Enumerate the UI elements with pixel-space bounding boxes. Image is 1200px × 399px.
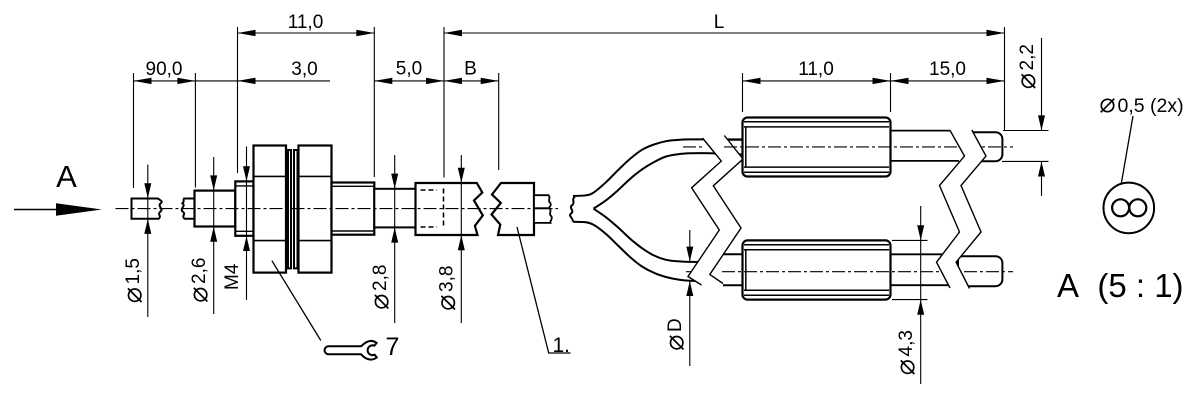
dimension 11,0 sleeve left arrow bbox=[743, 78, 761, 84]
hex nut 1 lower flat line bbox=[254, 240, 287, 242]
view arrow A head bbox=[56, 203, 102, 216]
back ferrule body bbox=[492, 183, 535, 235]
extension line x=374.3 bbox=[373, 27, 375, 177]
hidden line top bbox=[421, 189, 438, 191]
svg-text:2,8: 2,8 bbox=[370, 265, 391, 291]
dimension O2,6 bottom arrow bbox=[210, 227, 217, 242]
lower sleeve thread line 1 bbox=[744, 244, 889, 246]
dimension OD bottom arrow bbox=[686, 281, 693, 296]
fiber stub lower bbox=[534, 208, 552, 223]
dimension L left arrow bbox=[444, 30, 462, 36]
svg-text:15,0: 15,0 bbox=[929, 59, 966, 80]
extension line x=498.7 bbox=[498, 73, 500, 170]
collar sleeve bbox=[332, 183, 375, 235]
dimension 11,0 (sleeve) line bbox=[743, 80, 1005, 82]
left break band across branches bbox=[688, 133, 743, 289]
dimension 90,0 left arrow bbox=[134, 78, 152, 84]
dimension O4,3 label bbox=[896, 330, 917, 374]
dimension 11,0 (thread length) line bbox=[238, 32, 375, 34]
hex nut 1 upper flat line bbox=[254, 175, 287, 177]
dimension O3,8 label bbox=[437, 266, 458, 310]
collar sleeve inner top line bbox=[332, 185, 375, 187]
dimension O1,5 line bbox=[147, 165, 149, 318]
dimension 11,0 sleeve right arrow bbox=[873, 78, 891, 84]
fiber break stub (O1,5 continues) bbox=[182, 199, 195, 219]
svg-text:B: B bbox=[464, 59, 477, 80]
collar sleeve inner bottom line bbox=[332, 230, 375, 232]
fork upper inner edge bbox=[594, 153, 743, 209]
detail fiber core left bbox=[1112, 199, 1129, 216]
dimension OD line lower bbox=[689, 281, 691, 366]
svg-text:0,5 (2x): 0,5 (2x) bbox=[1118, 95, 1184, 117]
leader line for item 1 bbox=[517, 227, 571, 353]
dimension OD top arrow bbox=[686, 247, 693, 262]
dimension M4 line bbox=[246, 147, 248, 301]
dimension O3,8 bottom arrow bbox=[458, 235, 465, 250]
dimension O2,2 label bbox=[1017, 44, 1038, 88]
main centerline bbox=[116, 208, 559, 210]
upper sleeve centerline bbox=[724, 146, 1013, 148]
dimension O4,3 line bbox=[920, 206, 922, 384]
extension line x=195.4 bbox=[194, 73, 196, 188]
O4,3 extension bottom bbox=[892, 299, 928, 301]
dimension O2,2 line upper bbox=[1041, 38, 1043, 131]
svg-text:11,0: 11,0 bbox=[288, 12, 324, 33]
washer 2 bbox=[294, 150, 298, 268]
dimension M4 bottom arrow bbox=[243, 236, 250, 251]
dimension O2,8 line bbox=[394, 155, 396, 323]
dimension 90,0 right arrow bbox=[177, 78, 195, 84]
svg-text:A (5 : 1): A (5 : 1) bbox=[1057, 267, 1184, 304]
lower sleeve centerline left stub bbox=[686, 271, 700, 273]
dimension O1,5 bottom arrow bbox=[144, 219, 151, 234]
dimension 11,0 right arrow bbox=[356, 30, 374, 36]
lower sleeve thread line 3 bbox=[744, 289, 889, 291]
dimension 5,0 right arrow bbox=[426, 78, 444, 84]
dimension L line bbox=[444, 32, 1005, 34]
detail leader line bbox=[1118, 116, 1134, 206]
lower tube top edge bbox=[891, 253, 944, 255]
lower tube bottom edge bbox=[891, 284, 951, 286]
svg-text:A: A bbox=[56, 159, 77, 194]
svg-text:1.: 1. bbox=[553, 334, 571, 357]
thread section M4 bbox=[235, 181, 253, 235]
svg-text:90,0: 90,0 bbox=[146, 59, 183, 80]
dimension O2,2 line lower bbox=[1041, 161, 1043, 196]
svg-text:3,8: 3,8 bbox=[437, 266, 458, 292]
hex nut 2 upper flat line bbox=[299, 175, 332, 177]
washer 1 bbox=[288, 150, 291, 268]
upper sleeve M4 body bbox=[743, 118, 891, 177]
fiber tip body (O1,5) bbox=[132, 199, 162, 219]
dimension OD line upper bbox=[689, 230, 691, 262]
hex nut 2 lower flat line bbox=[299, 240, 332, 242]
svg-text:1,5: 1,5 bbox=[123, 258, 144, 284]
hex nut 1 bbox=[254, 146, 287, 273]
wrench icon bbox=[325, 341, 377, 360]
cable start break edge bbox=[570, 197, 575, 222]
svg-text:11,0: 11,0 bbox=[798, 59, 834, 80]
sleeve O3,8 body bbox=[416, 183, 483, 235]
ferrule body O2,6 bbox=[195, 191, 236, 227]
wrench leader line bbox=[272, 261, 321, 341]
O2,2 extension bottom bbox=[1002, 160, 1049, 162]
svg-text:4,3: 4,3 bbox=[896, 330, 917, 356]
extension line x=133.5 bbox=[133, 73, 135, 188]
dimension O4,3 top arrow bbox=[917, 225, 924, 240]
dimension O2,8 bottom arrow bbox=[391, 228, 398, 243]
lower branch stub bottom bbox=[718, 284, 743, 286]
detail fiber core right bbox=[1129, 199, 1146, 216]
lower tip cap bbox=[958, 256, 1002, 286]
detail label O0,5 (2x) bbox=[1101, 95, 1184, 117]
dimension O2,8 label bbox=[370, 265, 391, 309]
upper tube bottom edge bbox=[891, 160, 960, 162]
svg-text:D: D bbox=[665, 318, 686, 332]
dimension O1,5 top arrow bbox=[144, 183, 151, 198]
dimension 3,0 arrow bbox=[238, 78, 256, 84]
upper sleeve thread line 1 bbox=[744, 121, 889, 123]
lower sleeve M4 body bbox=[743, 240, 891, 299]
upper sleeve thread line 4 bbox=[744, 171, 889, 173]
fork lower inner edge bbox=[594, 209, 716, 263]
dimension 90,0 / 3,0 line bbox=[134, 80, 331, 82]
fiber stub upper bbox=[534, 195, 551, 208]
dimension O2,6 top arrow bbox=[210, 175, 217, 190]
dimension OD label bbox=[665, 318, 686, 349]
dimension O2,2 top arrow bbox=[1038, 115, 1045, 130]
thread section M4 relief bottom bbox=[235, 230, 253, 232]
svg-text:7: 7 bbox=[386, 333, 400, 361]
dimension 5,0 left arrow bbox=[374, 78, 392, 84]
dimension O3,8 line bbox=[460, 155, 462, 323]
svg-text:M4: M4 bbox=[222, 263, 243, 290]
lower sleeve thread line 2 bbox=[744, 249, 889, 251]
hidden line bottom bbox=[421, 226, 438, 228]
O2,2 extension top bbox=[1003, 130, 1049, 132]
lower sleeve centerline bbox=[722, 271, 1013, 273]
upper sleeve end face line bbox=[745, 127, 747, 166]
dimension M4 top arrow bbox=[243, 166, 250, 181]
dimension 11,0 left arrow bbox=[238, 30, 256, 36]
thread section M4 relief top bbox=[235, 185, 253, 187]
dimension O4,3 bottom arrow bbox=[917, 300, 924, 315]
dimension B right arrow bbox=[481, 78, 499, 84]
extension line x=237.5 bbox=[237, 27, 239, 173]
hex nut 2 bbox=[299, 146, 332, 273]
O4,3 extension top bbox=[892, 239, 928, 241]
upper branch stub top bbox=[722, 139, 743, 141]
upper tip cap bbox=[966, 132, 1002, 161]
view arrow A shaft bbox=[14, 209, 60, 211]
fork upper outer edge bbox=[573, 139, 743, 196]
lower sleeve thread line 4 bbox=[744, 294, 889, 296]
extension line x=444 bbox=[443, 27, 445, 178]
dimension 15,0 right arrow bbox=[987, 78, 1005, 84]
extension line x=890.5 bbox=[890, 73, 892, 112]
extension line x=1004.5 bbox=[1004, 27, 1006, 130]
dimension 15,0 left arrow bbox=[891, 78, 909, 84]
detail cable outline circle bbox=[1104, 183, 1155, 234]
dimension M4 label bbox=[222, 263, 243, 290]
upper sleeve centerline left stub bbox=[683, 146, 704, 148]
svg-text:3,0: 3,0 bbox=[291, 59, 317, 80]
dimension B left arrow bbox=[444, 78, 462, 84]
upper sleeve thread line 2 bbox=[744, 126, 889, 128]
dimension O1,5 label bbox=[123, 258, 144, 302]
lower branch stub top bbox=[720, 253, 743, 255]
neck O2,8 bbox=[374, 189, 415, 228]
svg-text:L: L bbox=[714, 12, 725, 33]
svg-text:2,6: 2,6 bbox=[189, 258, 210, 284]
upper tube top edge bbox=[891, 130, 951, 132]
svg-text:2,2: 2,2 bbox=[1017, 44, 1038, 70]
dimension O2,6 line bbox=[213, 157, 215, 314]
dimension O2,6 label bbox=[189, 258, 210, 302]
dimension L right arrow bbox=[987, 30, 1005, 36]
dimension 5,0 / B line bbox=[374, 80, 498, 82]
dimension O2,2 bottom arrow bbox=[1038, 162, 1045, 177]
extension line x=742.5 bbox=[742, 73, 744, 112]
dimension O3,8 top arrow bbox=[458, 168, 465, 183]
hidden line vertical bbox=[443, 189, 445, 228]
fork lower outer edge bbox=[573, 222, 718, 281]
dimension O2,8 top arrow bbox=[391, 174, 398, 189]
upper sleeve thread line 3 bbox=[744, 166, 889, 168]
svg-text:5,0: 5,0 bbox=[396, 59, 422, 80]
lower sleeve end face line bbox=[745, 250, 747, 290]
right break band across tips bbox=[937, 127, 987, 292]
